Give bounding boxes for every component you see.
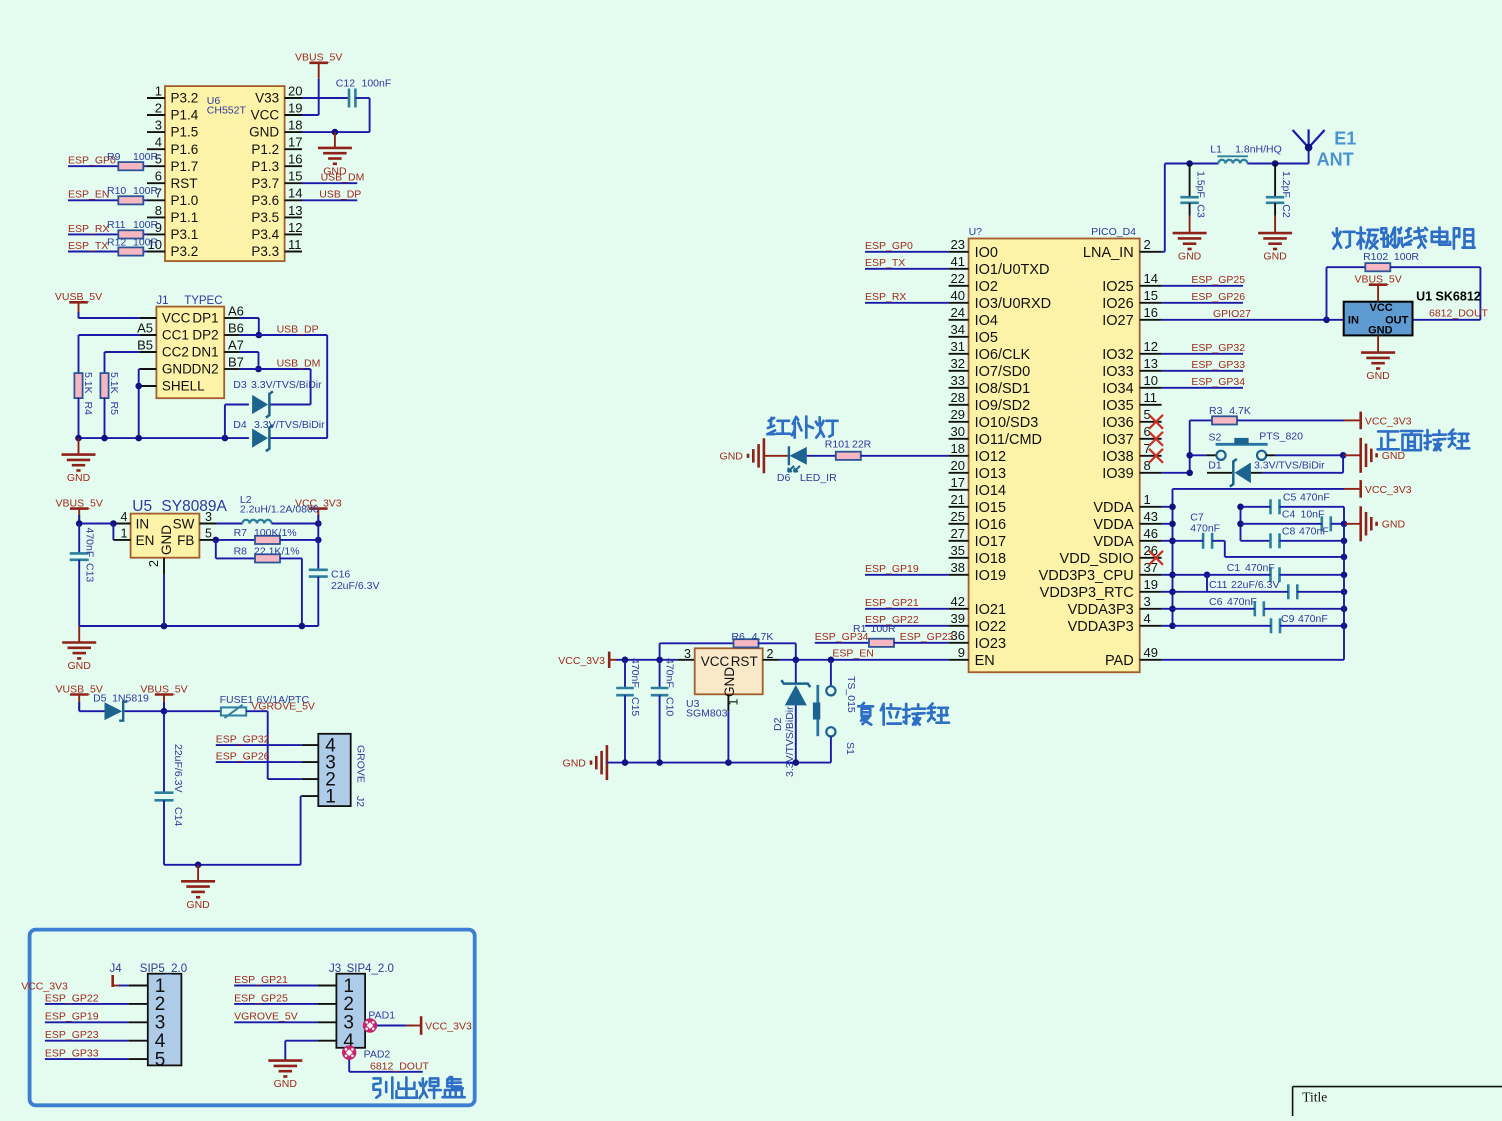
svg-text:P1.7: P1.7	[171, 159, 199, 174]
svg-text:22uF/6.3V: 22uF/6.3V	[331, 580, 379, 592]
svg-text:VGROVE_5V: VGROVE_5V	[251, 701, 315, 713]
svg-text:6: 6	[155, 169, 162, 184]
svg-text:3.3V/TVS/BiDir: 3.3V/TVS/BiDir	[254, 419, 325, 431]
svg-text:SY8089A: SY8089A	[161, 498, 227, 515]
svg-text:IO26: IO26	[1102, 296, 1133, 312]
svg-text:22R: 22R	[852, 439, 872, 451]
svg-text:GND: GND	[68, 660, 92, 672]
svg-text:VBUS_5V: VBUS_5V	[1354, 274, 1401, 286]
svg-text:IO0: IO0	[975, 245, 998, 261]
svg-text:100nF: 100nF	[362, 77, 392, 89]
svg-text:P3.5: P3.5	[251, 210, 279, 225]
svg-text:IO15: IO15	[975, 500, 1006, 516]
svg-text:11: 11	[288, 237, 302, 252]
svg-text:R4: R4	[82, 402, 94, 416]
svg-text:D3: D3	[233, 379, 247, 391]
svg-text:28: 28	[951, 390, 965, 405]
svg-text:5.1K: 5.1K	[82, 372, 94, 394]
svg-text:29: 29	[951, 407, 965, 422]
svg-text:P1.4: P1.4	[171, 108, 199, 123]
svg-text:A5: A5	[137, 320, 153, 335]
svg-text:IO32: IO32	[1102, 347, 1133, 363]
svg-text:P3.6: P3.6	[251, 193, 279, 208]
svg-text:ANT: ANT	[1317, 150, 1354, 170]
svg-text:IO34: IO34	[1102, 381, 1133, 397]
svg-text:100R: 100R	[871, 623, 897, 635]
svg-text:40: 40	[951, 288, 965, 303]
svg-text:V33: V33	[255, 91, 279, 106]
svg-text:LED_IR: LED_IR	[800, 472, 837, 484]
svg-text:15: 15	[288, 169, 302, 184]
svg-text:R9: R9	[107, 151, 121, 163]
svg-text:100R: 100R	[1394, 251, 1420, 263]
svg-text:17: 17	[951, 475, 965, 490]
svg-text:23: 23	[951, 237, 965, 252]
svg-text:1: 1	[325, 786, 336, 807]
svg-text:2.2uH/1.2A/0806: 2.2uH/1.2A/0806	[240, 504, 319, 516]
svg-text:C10: C10	[664, 697, 676, 716]
svg-text:DP2: DP2	[192, 328, 218, 343]
svg-text:VCC_3V3: VCC_3V3	[21, 980, 68, 992]
svg-text:22: 22	[951, 271, 965, 286]
svg-text:P3.1: P3.1	[171, 227, 199, 242]
svg-text:R11: R11	[107, 219, 126, 231]
svg-text:16: 16	[1144, 305, 1158, 320]
svg-text:PAD: PAD	[1105, 653, 1134, 669]
svg-text:20: 20	[951, 458, 965, 473]
svg-text:4.7K: 4.7K	[1229, 405, 1251, 417]
svg-text:3: 3	[205, 510, 212, 524]
svg-text:IO1/U0TXD: IO1/U0TXD	[975, 262, 1050, 278]
svg-text:5: 5	[205, 526, 212, 540]
svg-text:100R: 100R	[133, 185, 159, 197]
svg-text:D4: D4	[233, 419, 247, 431]
svg-text:22uF/6.3V: 22uF/6.3V	[1231, 579, 1279, 591]
svg-text:VDDA: VDDA	[1093, 517, 1134, 533]
svg-text:J1: J1	[156, 295, 168, 307]
svg-text:C1: C1	[1227, 562, 1241, 574]
svg-text:19: 19	[288, 101, 302, 116]
svg-text:SHELL: SHELL	[162, 379, 205, 394]
svg-text:P3.7: P3.7	[251, 176, 279, 191]
svg-text:S1: S1	[844, 742, 856, 755]
svg-text:31: 31	[951, 339, 965, 354]
svg-text:5.1K: 5.1K	[108, 372, 120, 394]
svg-text:100K/1%: 100K/1%	[254, 527, 297, 539]
svg-text:39: 39	[951, 611, 965, 626]
svg-text:ESP_GP23: ESP_GP23	[900, 631, 954, 643]
svg-text:IO2: IO2	[975, 279, 998, 295]
svg-text:GND: GND	[67, 472, 91, 484]
svg-text:P3.3: P3.3	[251, 244, 279, 259]
svg-text:IO21: IO21	[975, 602, 1006, 618]
svg-text:IO3/U0RXD: IO3/U0RXD	[975, 296, 1052, 312]
svg-text:15: 15	[1144, 288, 1158, 303]
svg-text:TYPEC: TYPEC	[184, 295, 222, 307]
svg-text:SIP4_2.0: SIP4_2.0	[347, 963, 394, 975]
svg-text:PAD2: PAD2	[364, 1048, 391, 1060]
svg-text:R3: R3	[1209, 405, 1223, 417]
svg-text:8: 8	[155, 203, 162, 218]
svg-text:VBUS_5V: VBUS_5V	[295, 52, 342, 64]
svg-text:1.2pF: 1.2pF	[1280, 171, 1292, 198]
svg-text:IO18: IO18	[975, 551, 1006, 567]
svg-text:IO38: IO38	[1102, 449, 1133, 465]
svg-text:ESP_GP23: ESP_GP23	[45, 1029, 99, 1041]
svg-text:4: 4	[121, 510, 128, 524]
svg-text:100R: 100R	[133, 151, 159, 163]
svg-text:TS_015: TS_015	[845, 676, 857, 713]
svg-text:IO12: IO12	[975, 449, 1006, 465]
svg-text:3.3V/TVS/BiDir: 3.3V/TVS/BiDir	[1254, 460, 1325, 472]
svg-text:C3: C3	[1195, 204, 1207, 218]
svg-text:VDD3P3_RTC: VDD3P3_RTC	[1040, 585, 1134, 601]
svg-text:IO5: IO5	[975, 330, 998, 346]
svg-text:IO23: IO23	[975, 636, 1006, 652]
svg-text:21: 21	[951, 492, 965, 507]
svg-text:46: 46	[1144, 526, 1158, 541]
svg-text:GND: GND	[1382, 450, 1406, 462]
svg-text:C9: C9	[1281, 613, 1295, 625]
svg-text:IO19: IO19	[975, 568, 1006, 584]
svg-text:3.3V/TVS/BiDir: 3.3V/TVS/BiDir	[784, 706, 796, 777]
svg-text:32: 32	[951, 356, 965, 371]
svg-text:P3.4: P3.4	[251, 227, 279, 242]
svg-text:VDDA3P3: VDDA3P3	[1068, 602, 1134, 618]
svg-text:IO37: IO37	[1102, 432, 1133, 448]
svg-text:VDDA: VDDA	[1093, 534, 1134, 550]
svg-text:DN2: DN2	[192, 362, 219, 377]
svg-text:C16: C16	[331, 569, 350, 581]
svg-text:U5: U5	[132, 498, 152, 515]
svg-text:1: 1	[1144, 492, 1151, 507]
svg-text:IO4: IO4	[975, 313, 998, 329]
svg-text:8: 8	[1144, 458, 1151, 473]
svg-text:13: 13	[288, 203, 302, 218]
svg-text:VCC_3V3: VCC_3V3	[1365, 484, 1412, 496]
svg-text:GND: GND	[722, 667, 737, 697]
svg-text:10nF: 10nF	[1301, 508, 1325, 520]
svg-text:R1: R1	[853, 623, 867, 635]
svg-text:CH552T: CH552T	[207, 105, 247, 117]
svg-text:2: 2	[147, 560, 161, 567]
svg-text:ESP_GP25: ESP_GP25	[1191, 274, 1245, 286]
svg-text:22uF/6.3V: 22uF/6.3V	[172, 744, 184, 792]
svg-text:A6: A6	[228, 303, 244, 318]
svg-text:30: 30	[951, 424, 965, 439]
svg-text:VCC_3V3: VCC_3V3	[1365, 415, 1412, 427]
svg-text:LNA_IN: LNA_IN	[1083, 245, 1134, 261]
svg-text:IO13: IO13	[975, 466, 1006, 482]
svg-text:470nF: 470nF	[1245, 562, 1275, 574]
svg-text:DN1: DN1	[192, 345, 219, 360]
svg-text:D5: D5	[93, 693, 107, 705]
svg-text:43: 43	[1144, 509, 1158, 524]
svg-text:35: 35	[951, 543, 965, 558]
svg-text:IO9/SD2: IO9/SD2	[975, 398, 1031, 414]
svg-text:VDDA: VDDA	[1093, 500, 1134, 516]
svg-text:ESP_RX: ESP_RX	[68, 223, 109, 235]
svg-text:USB_DM: USB_DM	[277, 357, 321, 369]
svg-text:ESP_GP32: ESP_GP32	[1191, 342, 1245, 354]
svg-text:CC2: CC2	[162, 345, 189, 360]
svg-text:ESP_TX: ESP_TX	[865, 257, 905, 269]
svg-text:B7: B7	[228, 354, 244, 369]
svg-text:IO7/SD0: IO7/SD0	[975, 364, 1031, 380]
svg-text:C11: C11	[1209, 579, 1228, 591]
svg-text:25: 25	[951, 509, 965, 524]
svg-text:10: 10	[1144, 373, 1158, 388]
svg-text:470nF: 470nF	[84, 528, 96, 558]
svg-text:14: 14	[1144, 271, 1158, 286]
svg-text:4.7K: 4.7K	[752, 631, 774, 643]
svg-text:5: 5	[155, 1049, 166, 1070]
svg-text:R101: R101	[825, 439, 850, 451]
svg-text:IN: IN	[1348, 315, 1359, 327]
svg-text:IO35: IO35	[1102, 398, 1133, 414]
svg-text:P1.5: P1.5	[171, 125, 199, 140]
svg-text:USB_DM: USB_DM	[321, 172, 365, 184]
svg-text:R8: R8	[234, 546, 248, 558]
svg-text:470nF: 470nF	[1300, 491, 1330, 503]
svg-text:IO36: IO36	[1102, 415, 1133, 431]
svg-text:ESP_TX: ESP_TX	[68, 240, 108, 252]
svg-text:470nF: 470nF	[1190, 522, 1220, 534]
svg-text:VCC: VCC	[162, 311, 191, 326]
svg-text:ESP_GP25: ESP_GP25	[234, 992, 288, 1004]
svg-text:VBUS_5V: VBUS_5V	[140, 683, 187, 695]
svg-text:6812_DOUT: 6812_DOUT	[1429, 308, 1489, 320]
svg-text:26: 26	[1144, 543, 1158, 558]
svg-text:P3.2: P3.2	[171, 91, 199, 106]
svg-text:GND: GND	[1178, 251, 1202, 263]
svg-text:19: 19	[1144, 577, 1158, 592]
svg-text:18: 18	[288, 118, 302, 133]
svg-text:ESP_GP26: ESP_GP26	[1191, 291, 1245, 303]
svg-text:L1: L1	[1210, 143, 1222, 155]
svg-text:R10: R10	[107, 185, 126, 197]
svg-text:GND: GND	[1368, 325, 1393, 337]
svg-text:J4: J4	[110, 963, 123, 975]
svg-text:GND: GND	[274, 1078, 298, 1090]
svg-text:VCC_3V3: VCC_3V3	[425, 1020, 472, 1032]
svg-text:ESP_GP19: ESP_GP19	[45, 1011, 99, 1023]
svg-text:P3.2: P3.2	[171, 244, 199, 259]
svg-text:2: 2	[155, 101, 162, 116]
svg-text:USB_DP: USB_DP	[319, 189, 361, 201]
svg-text:C14: C14	[172, 807, 184, 826]
svg-text:R12: R12	[107, 236, 126, 248]
svg-text:IO39: IO39	[1102, 466, 1133, 482]
svg-text:GND: GND	[1382, 519, 1406, 531]
svg-text:ESP_GP32: ESP_GP32	[216, 734, 270, 746]
svg-text:VGROVE_5V: VGROVE_5V	[234, 1011, 298, 1023]
svg-text:PAD1: PAD1	[368, 1010, 395, 1022]
svg-text:4: 4	[155, 135, 162, 150]
svg-text:470nF: 470nF	[1227, 596, 1257, 608]
svg-text:USB_DP: USB_DP	[277, 323, 319, 335]
svg-text:27: 27	[951, 526, 965, 541]
svg-text:IO8/SD1: IO8/SD1	[975, 381, 1031, 397]
svg-text:R5: R5	[108, 402, 120, 416]
svg-text:PICO_D4: PICO_D4	[1091, 226, 1136, 238]
svg-text:20: 20	[288, 83, 302, 98]
svg-text:IO16: IO16	[975, 517, 1006, 533]
svg-text:D2: D2	[772, 717, 784, 731]
svg-text:IO33: IO33	[1102, 364, 1133, 380]
svg-text:9: 9	[958, 645, 965, 660]
svg-text:17: 17	[288, 135, 302, 150]
svg-text:U1 SK6812: U1 SK6812	[1416, 290, 1481, 304]
svg-text:42: 42	[951, 594, 965, 609]
svg-text:38: 38	[951, 560, 965, 575]
svg-text:GND: GND	[249, 125, 279, 140]
svg-text:EN: EN	[975, 653, 995, 669]
svg-text:CC1: CC1	[162, 328, 189, 343]
svg-text:1: 1	[155, 83, 162, 98]
svg-text:2: 2	[1144, 237, 1151, 252]
svg-text:B6: B6	[228, 320, 244, 335]
svg-text:ESP_GP33: ESP_GP33	[1191, 359, 1245, 371]
svg-text:SW: SW	[173, 516, 195, 531]
svg-text:470nF: 470nF	[1299, 525, 1329, 537]
svg-text:FB: FB	[177, 533, 194, 548]
svg-text:41: 41	[951, 254, 965, 269]
svg-text:VDD_SDIO: VDD_SDIO	[1060, 551, 1134, 567]
svg-text:VDDA3P3: VDDA3P3	[1068, 619, 1134, 635]
svg-text:C12: C12	[336, 77, 355, 89]
svg-text:P1.2: P1.2	[251, 142, 279, 157]
svg-text:VBUS_5V: VBUS_5V	[56, 497, 103, 509]
svg-text:ESP_RX: ESP_RX	[865, 291, 906, 303]
svg-text:S2: S2	[1209, 432, 1222, 444]
svg-text:VCC: VCC	[251, 108, 280, 123]
svg-text:R102: R102	[1363, 251, 1388, 263]
svg-text:ESP_EN: ESP_EN	[68, 189, 109, 201]
svg-text:Title: Title	[1302, 1090, 1327, 1105]
svg-text:U?: U?	[969, 226, 983, 238]
svg-text:ESP_GP21: ESP_GP21	[234, 974, 288, 986]
svg-text:E1: E1	[1334, 129, 1356, 149]
svg-text:3: 3	[684, 647, 691, 661]
svg-text:GND: GND	[162, 362, 192, 377]
svg-text:470nF: 470nF	[664, 658, 676, 688]
svg-text:ESP_EN: ESP_EN	[832, 648, 873, 660]
svg-text:6812_DOUT: 6812_DOUT	[370, 1060, 430, 1072]
svg-text:VCC_3V3: VCC_3V3	[558, 655, 605, 667]
svg-text:GND: GND	[720, 451, 744, 463]
svg-text:1: 1	[121, 526, 128, 540]
svg-text:ESP_GP26: ESP_GP26	[216, 751, 270, 763]
svg-text:1.5pF: 1.5pF	[1195, 171, 1207, 198]
svg-text:R7: R7	[234, 527, 248, 539]
svg-text:100R: 100R	[133, 219, 159, 231]
svg-text:4: 4	[1144, 611, 1151, 626]
svg-text:1.8nH/HQ: 1.8nH/HQ	[1235, 143, 1282, 155]
svg-text:A7: A7	[228, 337, 244, 352]
svg-text:12: 12	[1144, 339, 1158, 354]
svg-text:IO14: IO14	[975, 483, 1006, 499]
svg-text:VCC: VCC	[1370, 302, 1393, 314]
svg-text:IO11/CMD: IO11/CMD	[975, 432, 1042, 448]
svg-text:VUSB_5V: VUSB_5V	[55, 291, 102, 303]
svg-text:RST: RST	[731, 654, 758, 669]
svg-text:GROVE: GROVE	[355, 745, 367, 783]
svg-text:C13: C13	[84, 563, 96, 582]
svg-text:470nF: 470nF	[629, 658, 641, 688]
svg-text:FUSE1: FUSE1	[220, 694, 254, 706]
svg-text:RST: RST	[171, 176, 198, 191]
svg-text:PTS_820: PTS_820	[1259, 431, 1303, 443]
svg-text:C15: C15	[629, 697, 641, 716]
svg-text:24: 24	[951, 305, 965, 320]
svg-text:VDD3P3_CPU: VDD3P3_CPU	[1039, 568, 1134, 584]
svg-text:IO10/SD3: IO10/SD3	[975, 415, 1039, 431]
svg-text:33: 33	[951, 373, 965, 388]
svg-text:J2: J2	[354, 796, 366, 807]
svg-text:C4: C4	[1282, 508, 1296, 520]
svg-text:ESP_GP0: ESP_GP0	[865, 240, 913, 252]
svg-text:IO6/CLK: IO6/CLK	[975, 347, 1031, 363]
svg-text:IO17: IO17	[975, 534, 1006, 550]
svg-text:ESP_GP33: ESP_GP33	[45, 1048, 99, 1060]
svg-text:100R: 100R	[133, 236, 159, 248]
svg-text:18: 18	[951, 441, 965, 456]
svg-text:C5: C5	[1283, 491, 1297, 503]
svg-text:ESP_GP19: ESP_GP19	[865, 563, 919, 575]
svg-text:R6: R6	[731, 631, 745, 643]
svg-text:GND: GND	[1263, 251, 1287, 263]
svg-text:EN: EN	[136, 533, 155, 548]
svg-text:13: 13	[1144, 356, 1158, 371]
svg-text:DP1: DP1	[192, 311, 218, 326]
svg-text:ESP_GP34: ESP_GP34	[1191, 376, 1245, 388]
svg-text:GND: GND	[186, 899, 210, 911]
svg-text:ESP_GP22: ESP_GP22	[45, 992, 99, 1004]
svg-text:49: 49	[1144, 645, 1158, 660]
svg-text:D1: D1	[1208, 460, 1222, 472]
svg-text:C2: C2	[1280, 204, 1292, 218]
svg-text:GND: GND	[563, 757, 587, 769]
svg-text:C8: C8	[1282, 525, 1296, 537]
svg-text:P1.3: P1.3	[251, 159, 279, 174]
svg-text:IN: IN	[136, 516, 150, 531]
svg-text:3.3V/TVS/BiDir: 3.3V/TVS/BiDir	[251, 379, 322, 391]
svg-text:SIP5_2.0: SIP5_2.0	[140, 963, 187, 975]
svg-text:J3: J3	[329, 963, 341, 975]
svg-text:34: 34	[951, 322, 965, 337]
svg-text:P1.0: P1.0	[171, 193, 199, 208]
svg-text:IO22: IO22	[975, 619, 1006, 635]
svg-text:11: 11	[1144, 390, 1158, 405]
svg-text:P1.1: P1.1	[171, 210, 199, 225]
svg-text:B5: B5	[137, 337, 153, 352]
svg-text:GND: GND	[1366, 370, 1390, 382]
svg-text:16: 16	[288, 152, 302, 167]
svg-text:ESP_GP21: ESP_GP21	[865, 597, 919, 609]
svg-text:IO27: IO27	[1102, 313, 1133, 329]
svg-text:3: 3	[1144, 594, 1151, 609]
svg-text:GPIO27: GPIO27	[1213, 308, 1251, 320]
svg-text:22.1K/1%: 22.1K/1%	[254, 546, 300, 558]
svg-text:GND: GND	[159, 525, 174, 555]
svg-text:P1.6: P1.6	[171, 142, 199, 157]
svg-text:D6: D6	[777, 472, 791, 484]
svg-text:470nF: 470nF	[1298, 613, 1328, 625]
svg-text:VCC: VCC	[701, 654, 730, 669]
svg-text:3: 3	[155, 118, 162, 133]
svg-text:14: 14	[288, 186, 302, 201]
